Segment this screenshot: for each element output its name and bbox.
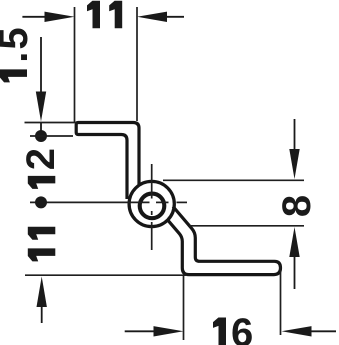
dim 11 top text bbox=[87, 1, 100, 29]
centerline horizontal bbox=[30, 201, 187, 203]
extension line top-right (x=137) bbox=[136, 7, 138, 121]
dim 16 text bbox=[213, 318, 226, 345]
dim 16 right arrow bbox=[282, 326, 312, 336]
dot marker lower (axis) bbox=[35, 196, 47, 208]
top leaf profile bbox=[76, 123, 139, 200]
dim 11 top left arrow bbox=[22, 16, 45, 18]
centerline vertical bbox=[151, 164, 153, 250]
extension line bottom dim left (x=183.5) bbox=[183, 276, 185, 340]
svg-text:2: 2 bbox=[19, 148, 63, 170]
extension line bottom-left (y=275.2) bbox=[25, 274, 186, 276]
extension line leaf top (y=122.5) bbox=[25, 122, 77, 124]
dot marker upper (leaf bottom) bbox=[35, 130, 47, 142]
svg-text:.5: .5 bbox=[0, 25, 36, 62]
dim 8 lower up arrow bbox=[289, 227, 299, 257]
extension line top-left (x=74.5) bbox=[74, 7, 76, 122]
knuckle outer circle bbox=[129, 181, 174, 226]
extension line right lower (y=225.8) bbox=[189, 225, 304, 227]
dim 16 left arrow bbox=[125, 330, 156, 332]
svg-text:6: 6 bbox=[231, 311, 253, 345]
dim 1.5 arrowhead bbox=[36, 92, 46, 122]
lower leaf profile bbox=[167, 207, 281, 275]
dim 11 left text bbox=[28, 227, 56, 240]
dim 8 upper down arrow bbox=[294, 119, 296, 151]
dim line tick below arrow bbox=[40, 123, 42, 132]
dim 1.5 text bbox=[0, 69, 27, 82]
dim 12 text bbox=[28, 176, 56, 189]
dim 11 top right arrow bbox=[166, 16, 184, 18]
dim 11 left up arrow bbox=[37, 277, 47, 308]
extension line right upper (y=180.3) bbox=[163, 179, 304, 181]
knuckle pin hole bbox=[140, 194, 165, 219]
dim 1.5 arrow line bbox=[40, 37, 42, 93]
extension line bottom dim right (x=280.5) bbox=[280, 265, 282, 335]
svg-text:8: 8 bbox=[275, 195, 319, 217]
dot marker line upper bbox=[30, 135, 73, 137]
